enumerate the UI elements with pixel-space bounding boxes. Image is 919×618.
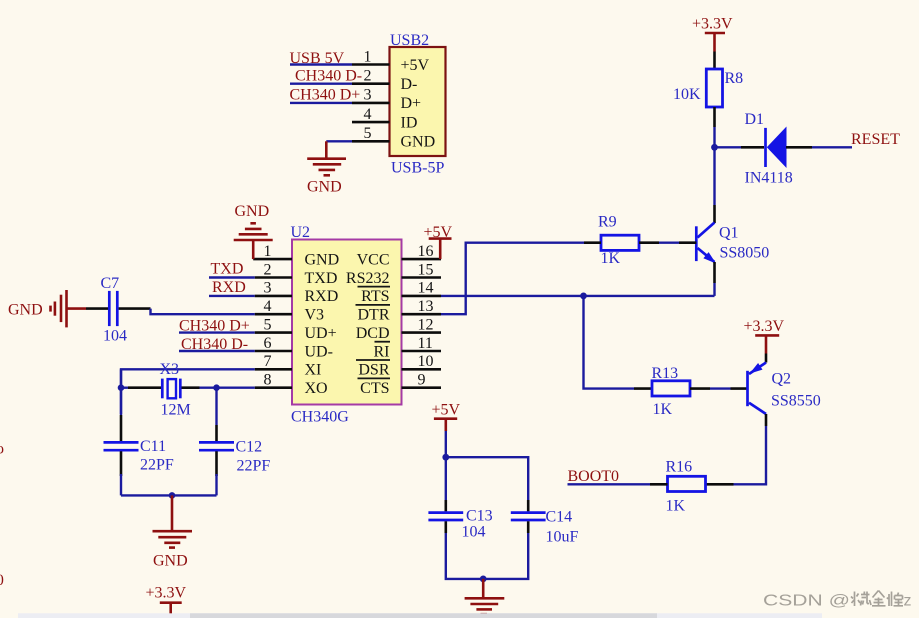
svg-text:VCC: VCC [357, 251, 390, 268]
svg-text:10uF: 10uF [546, 529, 579, 546]
svg-text:5: 5 [364, 125, 372, 142]
svg-text:15: 15 [418, 261, 434, 278]
wire crystal row right [182, 386, 255, 389]
svg-text:Q1: Q1 [719, 225, 739, 242]
svg-text:UD+: UD+ [305, 325, 337, 342]
capacitor C13 104 [428, 508, 492, 541]
svg-text:1: 1 [364, 48, 372, 65]
power +3.3V (top, at R8) [692, 16, 733, 52]
wire C12 to bottom rail [215, 474, 217, 495]
U2 pin 14 RTS [358, 280, 442, 306]
wire R8 to node [713, 127, 715, 147]
wire net USB 5V [290, 50, 353, 67]
svg-text:CH340G: CH340G [291, 409, 349, 426]
resistor R8 10K [673, 52, 743, 128]
svg-text:RI: RI [374, 343, 390, 360]
wire right rail down to C12 [215, 388, 217, 442]
svg-text:5: 5 [264, 316, 272, 333]
node junction R8 D1 Q1 [711, 144, 718, 151]
svg-text:D+: D+ [401, 95, 422, 112]
IC U2 CH340G [291, 224, 402, 426]
svg-text:USB2: USB2 [390, 32, 429, 49]
svg-text:BOOT0: BOOT0 [568, 468, 620, 485]
svg-text:C7: C7 [101, 275, 120, 292]
svg-text:GND: GND [307, 179, 342, 196]
svg-text:XI: XI [305, 362, 322, 379]
svg-text:DTR: DTR [358, 307, 390, 324]
svg-text:10K: 10K [673, 86, 701, 103]
U2 pin 1 GND [253, 243, 339, 269]
svg-text:+5V: +5V [432, 402, 461, 419]
USB2 pin 3 [352, 87, 390, 104]
U2 pin 15 RS232 [346, 261, 441, 287]
wire node down to R13 [584, 296, 635, 389]
wire USB2 pin5 to ground [326, 140, 352, 142]
USB2 pin 2 [352, 68, 390, 85]
U2 pin 9 CTS [358, 372, 442, 398]
wire DTR jog up to R9 [441, 243, 601, 315]
svg-text:GND: GND [401, 134, 436, 151]
svg-text:16: 16 [418, 243, 434, 260]
svg-text:RTS: RTS [361, 288, 389, 305]
svg-text:D1: D1 [745, 111, 765, 128]
svg-text:14: 14 [418, 280, 434, 297]
resistor R13 1K [634, 365, 710, 418]
svg-text:CH340 D-: CH340 D- [295, 67, 362, 84]
svg-text:+5V: +5V [401, 57, 430, 74]
wire RTS rail to Q1 emitter [441, 295, 715, 297]
ground GND above U2 pin1 [234, 203, 273, 259]
svg-text:1: 1 [264, 243, 272, 260]
svg-text:9: 9 [418, 372, 426, 389]
svg-text:1K: 1K [653, 401, 673, 418]
wire net CH340 D- [290, 67, 362, 84]
svg-text:D-: D- [401, 76, 418, 93]
svg-text:8: 8 [264, 372, 272, 389]
watermark CSDN [763, 591, 912, 610]
svg-text:TXD: TXD [305, 270, 338, 287]
svg-text:22PF: 22PF [237, 458, 271, 475]
capacitor C7 104 [86, 275, 151, 345]
power +5V (at C13) [432, 402, 461, 432]
wire net CH340 D+ [290, 86, 361, 103]
U2 pin 3 RXD [255, 280, 339, 306]
svg-text:+3.3V: +3.3V [146, 585, 187, 602]
wire U2 pin7 XI to crystal [121, 369, 255, 414]
wire D1 to RESET [786, 146, 852, 149]
power flag GND (left, at C7) [8, 290, 86, 327]
svg-text:USB-5P: USB-5P [391, 160, 444, 177]
wire +5V down to node [445, 431, 447, 457]
U2 pin 12 DCD [356, 316, 441, 342]
svg-text:1K: 1K [601, 250, 621, 267]
ground GND below C13 C14 [465, 579, 505, 614]
svg-text:RS232: RS232 [346, 270, 390, 287]
wire bottom rail C13 C14 [446, 533, 528, 579]
node junction RTS rail [580, 293, 587, 300]
USB2 pin 4 [352, 106, 390, 123]
svg-text:C11: C11 [140, 438, 166, 455]
transistor Q1 SS8050 [696, 223, 769, 264]
svg-text:R16: R16 [666, 459, 693, 476]
svg-text:GND: GND [8, 302, 43, 319]
svg-text:12M: 12M [161, 402, 191, 419]
ground GND below USB2 [307, 141, 346, 195]
svg-text:10: 10 [418, 353, 434, 370]
node junction C13 C14 ground [480, 576, 487, 583]
U2 pin 2 TXD [255, 261, 338, 287]
svg-text:GND: GND [235, 203, 270, 220]
U2 pin 13 DTR [356, 298, 442, 324]
U2 pin 6 UD- [255, 335, 333, 361]
svg-text:X3: X3 [160, 361, 180, 378]
node junction bottom rail [169, 492, 176, 499]
svg-text:V3: V3 [305, 307, 325, 324]
svg-text:R9: R9 [598, 214, 617, 231]
U2 pin 5 UD+ [255, 316, 337, 342]
USB2 pin 1 [352, 48, 390, 65]
svg-text:GND: GND [153, 553, 188, 570]
wire net TXD [209, 260, 255, 277]
svg-text:1K: 1K [666, 498, 686, 515]
wire R13 to Q2 base [710, 387, 748, 389]
capacitor C12 22PF [199, 439, 270, 477]
capacitor C11 22PF [104, 438, 174, 476]
svg-text:CH340 D+: CH340 D+ [179, 317, 250, 334]
wire C7 to U2 pin4 V3 [151, 309, 255, 315]
svg-text:C13: C13 [466, 508, 493, 525]
USB connector USB2 [390, 32, 446, 177]
scrollbar thumb [190, 613, 657, 618]
svg-text:22PF: 22PF [140, 457, 174, 474]
wire net RXD [209, 279, 255, 296]
power +3.3V (at Q2) [744, 318, 785, 354]
U2 pin 8 XO [255, 372, 328, 398]
wire C11 to bottom rail [120, 474, 122, 495]
wire net CH340 D+ (U2 pin5) [179, 317, 255, 334]
svg-text:SS8050: SS8050 [720, 245, 770, 262]
svg-text:CH340 D-: CH340 D- [181, 336, 248, 353]
scrollbar track [18, 613, 822, 618]
svg-text:+3.3V: +3.3V [692, 16, 733, 33]
svg-text:13: 13 [418, 298, 434, 315]
svg-text:C14: C14 [546, 509, 573, 526]
svg-text:12: 12 [418, 316, 434, 333]
svg-text:4: 4 [264, 298, 272, 315]
svg-text:SS8550: SS8550 [771, 393, 821, 410]
wire crystal row left [121, 387, 161, 389]
svg-text:U2: U2 [291, 224, 311, 241]
svg-text:C12: C12 [236, 439, 263, 456]
svg-text:2: 2 [264, 261, 272, 278]
svg-text:CSDN @: CSDN @ [763, 593, 850, 610]
node junction XI rail [118, 384, 125, 391]
ground GND below C11 C12 [153, 495, 193, 569]
wire node to D1 [715, 146, 765, 148]
resistor R16 1K [650, 459, 706, 515]
power +3.3V (bottom left) [146, 585, 187, 615]
node junction XO rail [213, 384, 220, 391]
svg-text:0: 0 [0, 572, 4, 589]
svg-text:RXD: RXD [212, 279, 246, 296]
resistor R9 1K [598, 214, 639, 268]
svg-text:R8: R8 [725, 70, 744, 87]
wire left rail down to C11 [120, 369, 122, 441]
wire net BOOT0 [568, 468, 651, 485]
svg-text:Q2: Q2 [772, 371, 792, 388]
svg-text:XO: XO [305, 380, 328, 397]
svg-text:RXD: RXD [305, 288, 339, 305]
wire bottom rail (crystal caps) [121, 494, 217, 496]
svg-text:6: 6 [264, 335, 272, 352]
svg-text:CTS: CTS [360, 380, 389, 397]
svg-text:CH340 D+: CH340 D+ [290, 86, 361, 103]
crystal X3 12M [160, 361, 191, 419]
wire Q1 emitter down to rail [713, 262, 716, 296]
svg-text:DCD: DCD [356, 325, 390, 342]
USB2 pin 5 [352, 125, 390, 142]
node junction C13 top [442, 454, 449, 461]
diode D1 IN4118 [745, 111, 793, 187]
wire Q2 collector down to R16 [706, 414, 767, 484]
svg-text:3: 3 [264, 280, 272, 297]
capacitor C14 10uF [511, 500, 579, 546]
svg-text:104: 104 [462, 524, 486, 541]
svg-text:2: 2 [364, 68, 372, 85]
svg-text:7: 7 [264, 353, 272, 370]
svg-text:GND: GND [305, 251, 340, 268]
svg-text:104: 104 [103, 328, 127, 345]
wire node down to Q1 collector [713, 147, 715, 223]
svg-text:DSR: DSR [358, 362, 389, 379]
svg-text:IN4118: IN4118 [745, 170, 793, 187]
svg-text:3: 3 [364, 87, 372, 104]
svg-text:ID: ID [401, 114, 418, 131]
svg-text:11: 11 [418, 335, 433, 352]
svg-text:RESET: RESET [851, 131, 900, 148]
svg-text:UD-: UD- [305, 343, 333, 360]
wire net CH340 D- (U2 pin6) [179, 336, 255, 353]
wire left down to C13 [445, 457, 447, 511]
power +5V (U2 pin16) [424, 224, 453, 259]
svg-text:TXD: TXD [211, 260, 244, 277]
transistor Q2 SS8550 [748, 354, 821, 415]
U2 pin 16 VCC [357, 243, 441, 269]
svg-text:z: z [904, 593, 912, 610]
U2 pin 11 RI [374, 335, 442, 361]
svg-text:4: 4 [364, 106, 372, 123]
svg-text:USB 5V: USB 5V [290, 50, 345, 67]
U2 pin 7 XI [255, 353, 322, 379]
svg-text:+3.3V: +3.3V [744, 318, 785, 335]
wire top rail C13 C14 [446, 457, 528, 500]
svg-text:o: o [0, 441, 4, 458]
U2 pin 10 DSR [356, 353, 441, 379]
U2 pin 4 V3 [255, 298, 324, 324]
wire R9 to Q1 base [639, 241, 696, 244]
